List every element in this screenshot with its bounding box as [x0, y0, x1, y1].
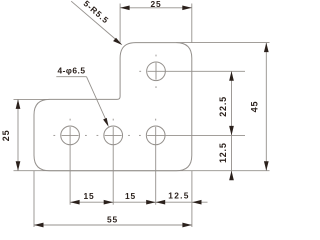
extension line: bottom edge extended both sides	[14, 170, 270, 172]
dimension 12.5 (right): bottom outside arrow	[229, 171, 234, 181]
dimension 45: top arrow	[264, 43, 269, 53]
svg-text:25: 25	[151, 0, 162, 9]
dimension 25 (top): left arrow	[120, 5, 130, 10]
leader 4-phi6.5: underline	[56, 76, 86, 78]
hole H3 circle	[146, 126, 165, 145]
dim 15b right arrow	[146, 200, 156, 205]
dimension 55 (bottom): line	[34, 224, 192, 226]
hole H2 centerlines	[97, 119, 130, 136]
svg-text:15: 15	[125, 191, 136, 201]
dimension 22.5: top arrow	[229, 71, 234, 81]
leader 5-R5.5: line	[71, 1, 119, 42]
plate outline	[34, 43, 192, 171]
svg-text:5-R5.5: 5-R5.5	[82, 0, 111, 26]
svg-text:12.5: 12.5	[218, 142, 228, 163]
svg-text:55: 55	[107, 215, 118, 225]
leader 4-phi6.5: line	[87, 77, 109, 125]
extension line: hole verticals down to bottom dims	[70, 127, 156, 205]
dimension 22.5 (right): line	[231, 71, 233, 135]
hole H4 (top) circle	[147, 62, 166, 81]
dimension 25 (left): line	[17, 99, 19, 170]
extension line: plate left edge extended down	[33, 171, 35, 227]
extension line: top edge extended right	[176, 42, 269, 44]
dimension 45: bottom arrow	[264, 161, 269, 171]
svg-text:45: 45	[250, 101, 260, 113]
dimension 25 (top): line	[120, 7, 192, 9]
extension line: top-25 left	[119, 4, 121, 43]
hole H1 centerlines	[53, 119, 86, 136]
hole H2 circle	[104, 126, 123, 145]
dim 15a right arrow	[104, 200, 114, 205]
dimension 55: left arrow	[34, 223, 44, 228]
dimension row 15/15/12.5 (bottom): line	[70, 201, 207, 203]
hole H1 circle	[61, 126, 80, 145]
leader 4-phi6.5: arrowhead	[103, 118, 109, 127]
dim 12.5b left outside arrow	[156, 200, 166, 205]
svg-text:22.5: 22.5	[218, 96, 228, 117]
dim 15a left arrow	[70, 200, 80, 205]
dimension 25 (left): bottom arrow	[16, 161, 21, 171]
dimension 22.5: bottom arrow	[229, 126, 234, 135]
leader 5-R5.5: arrowhead	[113, 38, 122, 45]
dimension 25 (left): top arrow	[16, 99, 21, 109]
extension line: top-25 right	[191, 4, 193, 43]
dim 12.5b right outside arrow	[192, 200, 202, 205]
hole H3 centerlines	[139, 119, 245, 136]
extension line: plate right edge extended down	[191, 171, 193, 227]
dimension 45 (right): line	[265, 43, 267, 171]
hole H4 centerlines	[139, 55, 245, 88]
dimension 55: right arrow	[182, 223, 192, 228]
dimension 12.5 (right): line	[231, 135, 233, 180]
svg-text:12.5: 12.5	[168, 191, 190, 201]
svg-text:25: 25	[1, 130, 11, 142]
extension line: bar top edge extended left	[14, 98, 50, 100]
svg-text:15: 15	[84, 191, 95, 201]
dimension 25 (top): right arrow	[182, 5, 192, 10]
svg-text:4-φ6.5: 4-φ6.5	[57, 66, 85, 76]
